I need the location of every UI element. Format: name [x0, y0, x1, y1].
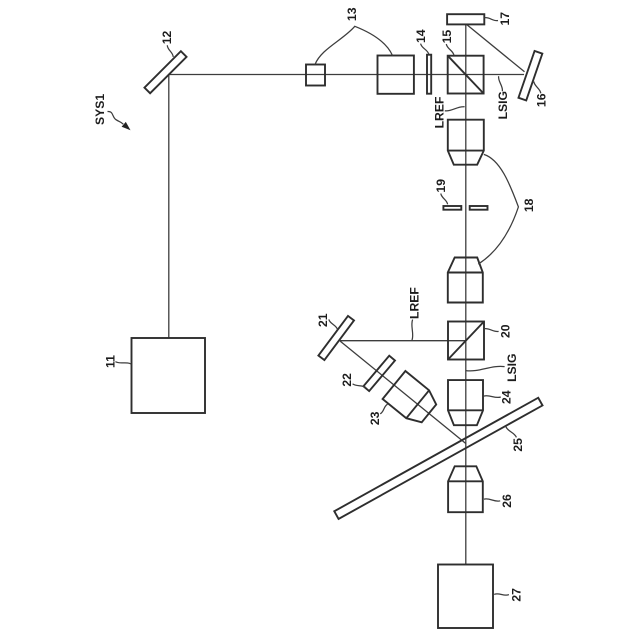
svg-text:27: 27	[509, 588, 523, 602]
svg-text:18: 18	[522, 198, 536, 212]
wire: beam from mirror 12 down to light source 11 (vertical)	[168, 75, 170, 339]
leader to label 19	[441, 194, 448, 205]
wire: beam from mirror 21 to beam splitter 20 (horizontal)	[340, 340, 466, 342]
leader to label 22	[353, 384, 366, 388]
leader to label 14	[421, 44, 429, 55]
svg-text:23: 23	[368, 411, 382, 425]
leader to label 16	[534, 82, 541, 94]
svg-text:26: 26	[500, 494, 514, 508]
wire: beam from mirror 12 to mirror 16 (horizontal)	[169, 74, 524, 76]
slit 19: left plate	[443, 206, 461, 210]
lens 18b (lower lens of relay 18, pointing up)	[448, 258, 483, 303]
leader to label LREF top	[445, 107, 465, 111]
light source 11 (box)	[132, 338, 206, 413]
slit 19: right plate	[470, 206, 488, 210]
objective lens 23 (tilted, pointing down-right)	[383, 371, 437, 422]
svg-text:16: 16	[535, 93, 549, 107]
svg-text:LREF: LREF	[407, 287, 421, 319]
mirror 16 (tilted)	[518, 51, 542, 100]
svg-text:15: 15	[440, 30, 454, 44]
plate 14 (thin vertical element)	[427, 55, 431, 94]
modulator unit 13: small box	[306, 65, 325, 86]
brace for unit 13	[315, 26, 393, 64]
leader to label 11	[115, 362, 131, 365]
leader to label 17	[485, 18, 499, 21]
modulator unit 13: large box	[378, 56, 414, 94]
leader to label 23	[380, 404, 387, 414]
svg-text:11: 11	[104, 355, 118, 368]
svg-text:LSIG: LSIG	[505, 353, 519, 381]
arrow for system label SYS1	[108, 111, 131, 130]
svg-text:17: 17	[498, 12, 512, 26]
leader to label 20	[484, 329, 498, 332]
leader to label 21	[329, 319, 338, 329]
wire: beam from detector 17 to mirror 16 (diagonal)	[467, 24, 525, 71]
leader to label 27	[494, 594, 509, 595]
leader to label LSIG top	[499, 76, 503, 91]
leader to label LSIG bottom	[466, 366, 505, 371]
leader to label 15	[446, 44, 454, 56]
detector 27 (box)	[438, 565, 493, 629]
svg-text:LREF: LREF	[433, 97, 447, 129]
svg-text:22: 22	[340, 373, 354, 387]
detector 17 (flat rectangle)	[447, 14, 484, 24]
wire: beam from mirror 21 to sample point on stage 25 (diagonal)	[340, 341, 466, 444]
leader to label 25	[506, 427, 517, 438]
svg-text:SYS1: SYS1	[93, 94, 107, 125]
brace for relay lens pair 18	[478, 154, 518, 264]
leader to label 12	[167, 45, 173, 57]
lens 24 (pointing down)	[448, 380, 483, 425]
svg-text:25: 25	[511, 438, 525, 452]
leader to label 26	[484, 499, 500, 501]
leader to label LREF middle	[411, 320, 414, 341]
svg-text:12: 12	[160, 31, 174, 45]
beam splitter 15 (cube)	[448, 56, 484, 94]
svg-text:24: 24	[500, 390, 514, 404]
svg-text:21: 21	[316, 313, 330, 327]
mirror 12	[144, 51, 186, 93]
beam splitter 20 (cube)	[448, 322, 484, 360]
svg-text:LSIG: LSIG	[496, 91, 510, 119]
lens 18a (upper lens of relay 18, pointing down)	[448, 120, 484, 165]
wire: LREF axis beam from detector 17 down to detector 27 (vertical)	[465, 24, 467, 564]
svg-text:19: 19	[434, 179, 448, 193]
mirror 21 (tilted)	[318, 316, 354, 360]
svg-text:13: 13	[345, 7, 359, 21]
lens 26 (pointing up)	[448, 466, 483, 512]
plate 22 (thin tilted element)	[363, 356, 395, 391]
svg-text:14: 14	[414, 29, 428, 43]
svg-text:20: 20	[499, 324, 513, 338]
stage / glass slab 25 (long tilted rectangle)	[334, 398, 542, 519]
leader to label 24	[484, 396, 501, 398]
